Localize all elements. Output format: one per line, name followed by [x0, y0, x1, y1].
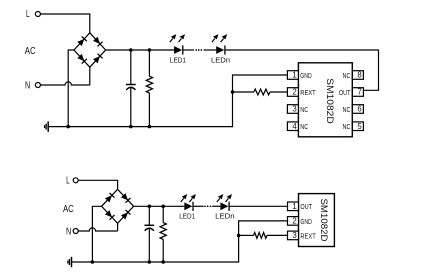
wire bridge BR1 bottom vertex to N wire [89, 67, 91, 85]
terminal L (top circuit) [35, 12, 40, 17]
IC1 pin 6 box [352, 105, 363, 114]
wire bridge BR2 DC- to ground rail [92, 206, 101, 262]
IC1 pin 4 box [287, 122, 298, 131]
wire L to bridge BR1 top (AC input) [40, 14, 89, 33]
svg-text:LEDn: LEDn [211, 55, 230, 64]
junction R4 / GND net (bottom) [237, 234, 241, 238]
svg-text:7: 7 [357, 88, 361, 97]
wire N to bridge BR2 bottom (hops over DC- wire) [78, 228, 117, 231]
wire DC+ to R3 [162, 206, 164, 222]
svg-text:GND: GND [300, 217, 311, 226]
wire R1 to ground rail [148, 93, 150, 127]
wire N to bridge BR1 bottom (hops over DC- wire) [40, 82, 89, 85]
wire C2 to ground rail [148, 228, 150, 262]
IC U2 SM1082D (3-pin) body [299, 194, 335, 247]
LED1 (bottom circuit) [181, 194, 196, 211]
wire LEDn cathode to IC2 pin1 OUT [229, 205, 287, 207]
wire dashed break to LEDn anode [204, 49, 217, 51]
junction R3 / ground rail [161, 260, 165, 264]
svg-text:N: N [66, 227, 71, 238]
ground symbol (top circuit) [45, 121, 49, 131]
svg-text:2: 2 [292, 217, 296, 226]
wire LED1 cathode to dashed break (bottom) [193, 205, 203, 207]
svg-text:REXT: REXT [300, 231, 316, 240]
resistor R2 (REXT, top circuit) [254, 89, 270, 95]
junction C2 / DC+ rail [148, 205, 152, 209]
terminal N (top circuit) [35, 83, 40, 88]
ground rail to IC1 pin1 GND [48, 75, 287, 127]
svg-text:1: 1 [292, 71, 296, 80]
resistor R1 (vertical, top circuit) [146, 76, 152, 93]
svg-text:4: 4 [292, 122, 297, 131]
svg-text:GND: GND [300, 71, 311, 80]
wire GND net to R2 [233, 91, 254, 93]
LEDn (bottom circuit) [217, 194, 232, 211]
resistor R4 (REXT, bottom circuit) [254, 233, 267, 239]
IC2 pin 3 box [288, 231, 299, 240]
diode BR1 bottom-right [93, 54, 103, 64]
wire (dashed continuation) [195, 49, 202, 51]
svg-text:2: 2 [292, 88, 296, 97]
bridge rectifier BR1 diamond [74, 33, 106, 67]
resistor R3 (vertical, bottom circuit) [160, 223, 166, 240]
wire bridge BR2 DC+ to LED1 anode [134, 205, 185, 207]
svg-text:OUT: OUT [339, 88, 351, 97]
svg-text:LED1: LED1 [170, 55, 186, 64]
svg-text:3: 3 [292, 105, 296, 114]
svg-text:3: 3 [292, 231, 296, 240]
wire DC+ to C1 [130, 50, 132, 85]
svg-text:L: L [66, 176, 70, 187]
wire C1 to ground rail [130, 88, 132, 127]
svg-text:5: 5 [357, 122, 362, 131]
svg-text:L: L [26, 9, 30, 20]
svg-text:NC: NC [343, 105, 351, 114]
svg-text:SM1082D: SM1082D [325, 78, 336, 124]
ground symbol (bottom circuit) [68, 257, 72, 267]
svg-text:LED1: LED1 [179, 211, 195, 220]
op IC U1 SM1082D (8-pin) body [298, 63, 352, 137]
svg-text:NC: NC [343, 122, 351, 131]
svg-text:6: 6 [357, 105, 361, 114]
svg-text:NC: NC [343, 71, 351, 80]
junction R1 / ground rail [148, 125, 152, 129]
junction C1 / ground rail [129, 125, 133, 129]
diode BR2 bottom-left [105, 210, 115, 220]
wire DC+ to R1 [148, 50, 150, 76]
svg-text:AC: AC [63, 204, 74, 215]
capacitor C2 [144, 225, 154, 230]
IC1 pin 7 box [352, 88, 363, 97]
svg-text:1: 1 [292, 202, 296, 211]
svg-text:REXT: REXT [300, 88, 316, 97]
svg-text:AC: AC [25, 46, 36, 57]
IC1 pin 2 box [287, 88, 298, 97]
wire R4 to IC2 pin3 REXT [267, 234, 288, 236]
junction C2 / ground rail [148, 260, 152, 264]
LED1 (top circuit) [170, 34, 185, 55]
terminal N (bottom circuit) [73, 229, 78, 234]
junction R1 / DC+ rail [148, 48, 152, 52]
IC2 pin 1 box [288, 202, 299, 211]
LEDn (top circuit) [212, 34, 227, 55]
diode BR2 top-left [105, 193, 115, 203]
junction R3 / DC+ rail [161, 205, 165, 209]
terminal L (bottom circuit) [73, 178, 78, 183]
wire LED1 cathode to dashed break [183, 49, 194, 51]
svg-text:NC: NC [300, 105, 308, 114]
wire bridge BR2 bottom vertex to N wire [117, 223, 119, 231]
svg-text:LEDn: LEDn [215, 211, 235, 220]
svg-text:8: 8 [357, 71, 361, 80]
wire R3 to ground rail [162, 239, 164, 262]
IC1 pin 3 box [287, 105, 298, 114]
diode BR1 bottom-left [77, 54, 87, 64]
wire GND net to R4 [239, 234, 254, 236]
wire LEDn cathode to IC1 pin7 OUT [225, 50, 378, 90]
wire L to bridge BR2 top [78, 180, 117, 189]
svg-text:OUT: OUT [300, 202, 312, 211]
diode BR1 top-right [93, 37, 103, 47]
junction R2 / GND net [231, 90, 235, 94]
capacitor C1 [126, 85, 136, 90]
diode BR2 top-right [121, 193, 131, 203]
diode BR2 bottom-right [121, 210, 131, 220]
wire bridge BR1 DC- to ground rail [68, 50, 74, 127]
IC1 pin 1 box [287, 71, 298, 80]
junction C1 / DC+ rail [129, 48, 133, 52]
IC2 pin 2 box [288, 217, 299, 226]
diode BR1 top-left [77, 37, 87, 47]
svg-text:N: N [25, 80, 30, 91]
wire R2 to IC1 pin2 REXT [270, 91, 288, 93]
junction bridge DC- / ground rail [66, 125, 70, 129]
wire (dashed continuation) [204, 205, 211, 207]
svg-text:SM1082D: SM1082D [319, 199, 330, 242]
ground rail to IC2 pin2 GND [72, 221, 288, 262]
IC1 pin 5 box [352, 122, 363, 131]
wire bridge BR1 DC+ to LED1 anode [106, 49, 175, 51]
junction bridge BR2 DC- / ground rail [91, 260, 95, 264]
wire dashed break to LEDn anode (bottom) [212, 205, 220, 207]
IC1 pin 8 box [352, 71, 363, 80]
bridge rectifier BR2 diamond [102, 189, 134, 223]
svg-text:NC: NC [300, 122, 308, 131]
wire DC+ to C2 [148, 206, 150, 225]
